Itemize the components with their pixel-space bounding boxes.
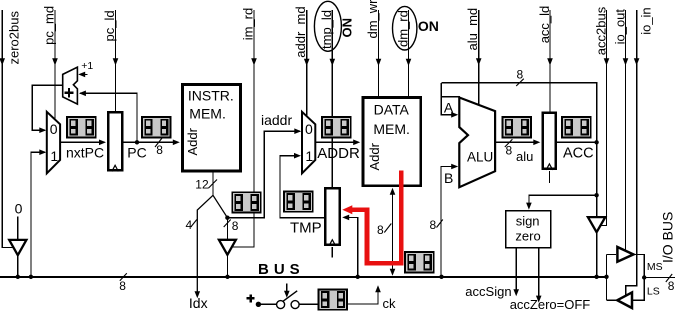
svg-text:pc_ld: pc_ld bbox=[102, 10, 117, 41]
svg-text:8: 8 bbox=[506, 144, 513, 158]
wire bus junction to MS buffer bbox=[607, 253, 617, 255]
wire MS output to IO junction bbox=[633, 254, 644, 300]
svg-text:MEM.: MEM. bbox=[373, 121, 410, 137]
register PC bbox=[108, 112, 122, 170]
svg-text:0: 0 bbox=[305, 121, 313, 137]
register ACC bbox=[543, 113, 556, 169]
wire junction down to tristate bbox=[226, 218, 228, 241]
svg-text:8: 8 bbox=[430, 218, 437, 232]
wire DATA MEM data port to bus (double arrow) bbox=[392, 189, 394, 275]
svg-text:0: 0 bbox=[15, 201, 23, 217]
annotation arrow press switch bbox=[286, 284, 288, 295]
wire A input from ACC feedback loop bbox=[441, 83, 456, 115]
svg-text:LS: LS bbox=[647, 286, 660, 298]
wire acc_ld control line bbox=[549, 10, 551, 112]
tristate buffer acc2bus bbox=[588, 217, 605, 232]
display instruction immediate bbox=[232, 192, 261, 212]
buffer MS out bbox=[617, 247, 633, 262]
svg-text:iaddr: iaddr bbox=[261, 112, 292, 128]
display TMP value bbox=[284, 192, 313, 212]
svg-text:acc_ld: acc_ld bbox=[537, 6, 552, 44]
svg-text:8: 8 bbox=[119, 279, 126, 293]
svg-text:dm_wr: dm_wr bbox=[365, 0, 380, 39]
wire acc2bus control line down to bus bbox=[601, 10, 607, 225]
display ADDR value bbox=[322, 117, 351, 137]
wire split to 8-bit branch junction bbox=[213, 195, 227, 217]
svg-text:1: 1 bbox=[50, 148, 58, 164]
svg-text:12: 12 bbox=[195, 178, 209, 192]
svg-text:Idx: Idx bbox=[189, 295, 208, 311]
wire LS output to bus bbox=[607, 299, 618, 301]
clock circuit plus bbox=[247, 297, 255, 300]
svg-text:sign: sign bbox=[516, 214, 540, 229]
wire BUS main horizontal bbox=[0, 276, 607, 278]
wire bus width slash 8 bbox=[120, 273, 127, 281]
wire tmp_ld control line bbox=[331, 10, 333, 188]
wire addr_md control line bbox=[306, 10, 308, 117]
wire accSign output bbox=[515, 248, 517, 294]
svg-text:ON: ON bbox=[418, 18, 439, 34]
svg-text:pc_md: pc_md bbox=[42, 6, 57, 45]
svg-text:B: B bbox=[444, 170, 453, 186]
wire adder output to mux input 0 bbox=[32, 85, 62, 130]
wire red highlight DATA MEM to TMP bbox=[348, 171, 401, 264]
svg-text:INSTR.: INSTR. bbox=[188, 87, 234, 103]
svg-text:0: 0 bbox=[50, 121, 58, 137]
wire ADDR mux output to DATA MEM bbox=[315, 141, 357, 143]
wire split to 4-bit Idx branch bbox=[197, 195, 213, 295]
wire dm_rd control line bbox=[408, 10, 410, 97]
wire slash 8 on PC output bbox=[155, 136, 164, 148]
svg-text:4: 4 bbox=[186, 218, 193, 232]
svg-text:zero2bus: zero2bus bbox=[7, 11, 22, 65]
svg-text:ALU: ALU bbox=[467, 149, 493, 164]
wire to switch bbox=[258, 303, 276, 305]
wire ACC output to junction bbox=[556, 141, 597, 143]
register TMP bbox=[325, 188, 339, 245]
wire zero2bus control line bbox=[2, 10, 14, 247]
display clock bbox=[319, 290, 348, 310]
svg-text:ACC: ACC bbox=[563, 146, 594, 162]
svg-text:8: 8 bbox=[517, 68, 524, 82]
wire pc_md control line bbox=[54, 10, 56, 120]
svg-text:8: 8 bbox=[232, 219, 239, 233]
memory DATA MEM. bbox=[363, 97, 421, 185]
svg-text:tmp_ld: tmp_ld bbox=[319, 10, 334, 49]
wire IO bus stub bbox=[644, 277, 675, 279]
svg-text:io_in: io_in bbox=[639, 7, 654, 34]
svg-text:io_out: io_out bbox=[612, 9, 627, 45]
svg-text:accZero=OFF: accZero=OFF bbox=[510, 297, 591, 312]
svg-text:ADDR: ADDR bbox=[317, 145, 360, 162]
wire dm_wr control line bbox=[378, 10, 380, 97]
wire PC feedback to adder bbox=[80, 93, 137, 142]
wire INSTR MEM 12-bit output bbox=[212, 171, 214, 195]
wire bus to mux input 1 bbox=[31, 152, 45, 277]
svg-text:8: 8 bbox=[377, 223, 384, 237]
display nxtPC value bbox=[67, 117, 96, 137]
wire pc_ld control line bbox=[115, 10, 117, 112]
wire PC output to INSTR MEM bbox=[123, 141, 176, 143]
svg-text:acc2bus: acc2bus bbox=[594, 6, 609, 55]
wire TMP output loop to ADDR mux input 1 bbox=[280, 156, 324, 218]
memory INSTR.MEM. bbox=[182, 84, 240, 171]
alu ALU bbox=[459, 98, 495, 188]
svg-text:8: 8 bbox=[668, 279, 675, 293]
display ACC value bbox=[562, 117, 591, 137]
wire B input riser from bus bbox=[441, 167, 457, 277]
svg-text:1: 1 bbox=[305, 148, 313, 164]
svg-text:zero: zero bbox=[515, 229, 540, 244]
svg-text:alu_md: alu_md bbox=[465, 8, 480, 51]
wire ALU output to ACC bbox=[495, 141, 538, 143]
svg-text:im_rd: im_rd bbox=[241, 8, 256, 41]
svg-text:Addr: Addr bbox=[367, 142, 382, 170]
display PC value bbox=[142, 117, 171, 137]
wire ACC feedback loop top bbox=[441, 83, 596, 143]
svg-text:8: 8 bbox=[156, 143, 163, 157]
svg-text:A: A bbox=[444, 99, 454, 115]
wire switch to display bbox=[299, 303, 318, 305]
svg-text:TMP: TMP bbox=[290, 220, 322, 237]
wire io_in control line with jog to LS buffer bbox=[626, 10, 637, 296]
box sign zero bbox=[506, 211, 551, 248]
buffer LS in bbox=[617, 292, 632, 308]
wire alu_md control line bbox=[478, 10, 480, 105]
wire accZero output bbox=[538, 248, 540, 300]
wire iaddr loop up to ADDR mux input 0 bbox=[227, 131, 300, 218]
wire ck bbox=[348, 287, 378, 304]
adder +1 bbox=[63, 67, 78, 104]
switch contacts bbox=[277, 301, 285, 309]
svg-text:nxtPC: nxtPC bbox=[66, 145, 104, 161]
display alu value bbox=[502, 117, 531, 137]
svg-text:DATA: DATA bbox=[374, 101, 410, 117]
mux nxtPC bbox=[47, 112, 60, 174]
wire +1 constant into adder bbox=[80, 73, 88, 75]
svg-text:ON: ON bbox=[340, 18, 355, 38]
svg-text:MEM.: MEM. bbox=[189, 106, 226, 122]
svg-text:alu: alu bbox=[516, 149, 533, 164]
tristate buffer instruction to bus bbox=[219, 240, 236, 255]
display bus value near DATA MEM bbox=[405, 252, 434, 272]
svg-text:addr_md: addr_md bbox=[293, 6, 308, 57]
svg-text:ck: ck bbox=[383, 296, 397, 311]
svg-text:dm_rd: dm_rd bbox=[396, 10, 411, 47]
mux ADDR bbox=[302, 112, 315, 174]
wire im_rd control line bbox=[233, 10, 255, 247]
svg-text:PC: PC bbox=[127, 144, 146, 160]
svg-text:BUS: BUS bbox=[258, 261, 305, 278]
svg-text:accSign: accSign bbox=[465, 284, 511, 299]
wire io_out control line bbox=[625, 10, 627, 251]
svg-text:+1: +1 bbox=[81, 60, 93, 72]
wire ACC to sign zero box bbox=[596, 142, 598, 276]
wire mux nxtPC output to PC bbox=[60, 141, 104, 143]
tristate buffer zero to bus bbox=[9, 240, 26, 255]
wire bus up to TMP input bbox=[344, 217, 358, 276]
svg-text:I/O BUS: I/O BUS bbox=[660, 212, 676, 263]
svg-text:Addr: Addr bbox=[185, 127, 200, 155]
